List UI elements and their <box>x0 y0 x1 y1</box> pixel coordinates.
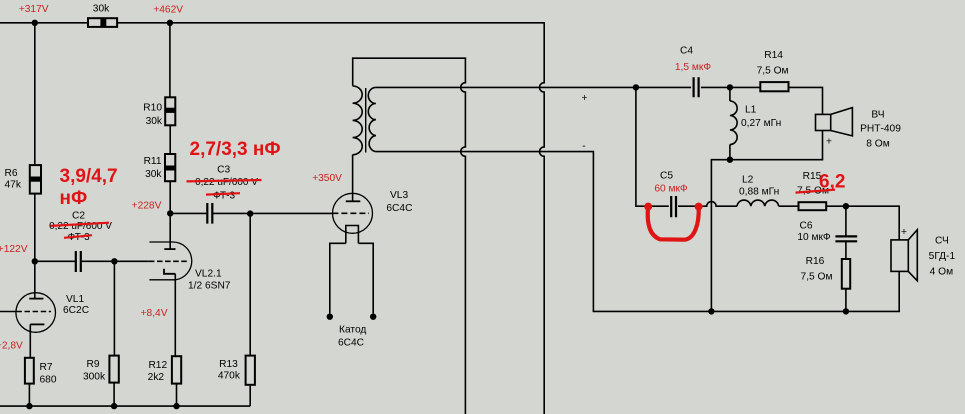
svg-text:нФ: нФ <box>60 188 88 209</box>
junction R15/C6 node <box>843 203 849 209</box>
wire R15 to C6 node to midrange speaker <box>826 206 899 240</box>
svg-text:R13: R13 <box>219 359 238 370</box>
svg-text:30k: 30k <box>146 116 163 127</box>
junction +122V node <box>32 258 38 264</box>
svg-text:10 мкФ: 10 мкФ <box>797 232 831 243</box>
wire VL2.1 cathode lead down to R12 <box>174 274 176 356</box>
junction ground rail at R7 <box>26 403 32 409</box>
tube VL2.1 1/2 6SN7 (half envelope) <box>149 242 192 280</box>
svg-text:680: 680 <box>40 375 57 386</box>
wire R9 node down to R9 and R9 to bottom rail <box>113 261 115 406</box>
svg-text:+: + <box>826 137 832 148</box>
annotation red mark C5 right terminal <box>695 203 703 211</box>
svg-text:ВЧ: ВЧ <box>871 110 884 121</box>
inductor L1 <box>730 101 737 145</box>
svg-text:6,2: 6,2 <box>819 172 845 193</box>
resistor R16 7,5 Ом <box>801 256 851 289</box>
svg-text:+: + <box>582 93 588 104</box>
svg-text:1/2 6SN7: 1/2 6SN7 <box>188 281 231 292</box>
svg-text:C3: C3 <box>217 165 230 176</box>
svg-text:C4: C4 <box>680 46 693 57</box>
tube VL1 6C2C triode <box>16 293 56 333</box>
resistor R7 680 <box>25 358 57 386</box>
inductor L2 <box>737 200 779 206</box>
svg-text:VL2.1: VL2.1 <box>195 269 222 280</box>
svg-text:+122V: +122V <box>0 244 28 255</box>
svg-text:R10: R10 <box>143 103 162 114</box>
annotation red strike C2 type <box>64 235 92 238</box>
svg-text:R14: R14 <box>764 50 783 61</box>
junction L1 bottom node <box>727 157 733 163</box>
svg-text:R9: R9 <box>86 359 99 370</box>
svg-text:РНТ-409: РНТ-409 <box>860 124 901 135</box>
junction ground rail at R12 <box>173 403 179 409</box>
svg-text:+: + <box>901 227 907 238</box>
transformer T1 output <box>353 86 376 155</box>
svg-text:+462V: +462V <box>153 5 183 16</box>
resistor 30k (top plate load) <box>88 4 117 27</box>
wire +317V branch down to R6 <box>34 23 36 165</box>
wire R6 bottom to +122V node to VL1 anode <box>34 194 36 299</box>
wire R11 to +228V node <box>169 181 171 213</box>
wire C2 right plate to R9-top node to VL2.1 grid <box>81 260 149 262</box>
svg-text:C5: C5 <box>660 171 673 182</box>
wire C3 right plate to R13 node to VL3 grid <box>213 212 333 214</box>
wire C5 right plate to L2 with hop over tweeter return <box>678 202 737 207</box>
junction bottom rail tweeter return <box>708 308 714 314</box>
svg-text:+317V: +317V <box>19 4 49 15</box>
wire tweeter bottom to return line down to bottom rail <box>711 131 822 312</box>
svg-text:7,5 Ом: 7,5 Ом <box>757 65 789 76</box>
speaker ВЧ РНТ-409 tweeter <box>816 108 853 136</box>
svg-text:R7: R7 <box>40 362 53 373</box>
svg-text:47k: 47k <box>5 180 22 191</box>
svg-text:R16: R16 <box>806 256 825 267</box>
annotation red strike C3 type <box>206 193 240 194</box>
junction + rail at C5 branch <box>633 84 639 90</box>
resistor R14 7,5 Ом <box>757 50 789 91</box>
annotation red strike R15 value <box>796 190 836 193</box>
svg-text:3,9/4,7: 3,9/4,7 <box>60 166 118 187</box>
svg-text:5ГД-1: 5ГД-1 <box>929 251 956 262</box>
junction bottom rail R16 <box>843 308 849 314</box>
svg-text:R6: R6 <box>5 168 18 179</box>
resistor R9 300k <box>83 356 119 383</box>
svg-text:L2: L2 <box>742 175 754 186</box>
svg-text:470k: 470k <box>218 370 241 381</box>
VL3 cathode terminals <box>327 314 333 320</box>
svg-text:6С4С: 6С4С <box>386 203 412 214</box>
svg-text:30k: 30k <box>93 4 110 15</box>
wire R7 bottom lead <box>28 384 30 407</box>
wire transformer primary top to right vertical drop <box>353 58 466 414</box>
wire R13 bottom lead <box>249 385 251 406</box>
svg-text:+8,4V: +8,4V <box>141 308 168 319</box>
wire VL2.1 anode lead <box>169 213 171 249</box>
junction C3 to VL3 grid node <box>247 210 253 216</box>
wire R13 node down to R13 top <box>249 214 251 356</box>
wire secondary bottom (-) to bottom crossover rail <box>376 152 899 312</box>
junction +228V node <box>167 210 173 216</box>
svg-text:2,7/3,3 нФ: 2,7/3,3 нФ <box>190 139 281 160</box>
svg-text:30k: 30k <box>145 169 162 180</box>
annotation red arc under C5 <box>648 208 699 240</box>
capacitor C2 (0,22uF crossed, 3,9/4,7 нФ) <box>76 251 81 272</box>
svg-text:6С4С: 6С4С <box>338 338 364 349</box>
resistor R11 30k <box>144 154 176 181</box>
svg-text:C6: C6 <box>799 221 812 232</box>
wire VL1 cathode lead down to R7 <box>29 324 31 357</box>
svg-text:R12: R12 <box>148 360 167 371</box>
svg-text:60 мкФ: 60 мкФ <box>654 184 688 195</box>
svg-text:+2,8V: +2,8V <box>0 341 23 352</box>
resistor R13 470k <box>218 356 255 385</box>
svg-text:Катод: Катод <box>339 325 366 336</box>
svg-text:7,5 Ом: 7,5 Ом <box>801 272 833 283</box>
wire R12 bottom lead <box>176 384 178 407</box>
svg-text:СЧ: СЧ <box>935 236 949 247</box>
junction grid node at R9 <box>111 258 117 264</box>
svg-text:C2: C2 <box>72 210 85 221</box>
capacitor C5 60 мкФ <box>671 196 676 217</box>
svg-text:0,27 мГн: 0,27 мГн <box>741 118 781 129</box>
svg-text:6C2C: 6C2C <box>63 305 89 316</box>
resistor R6 47k <box>5 165 42 194</box>
capacitor C3 (0,22uF crossed, 2,7/3,3 нФ) <box>207 203 212 224</box>
wire L2 to R15 <box>779 205 799 207</box>
wire L1 top lead <box>729 87 731 101</box>
wire VL1 grid input from left edge <box>0 311 16 313</box>
wire +122V node to C2 left plate <box>35 260 75 262</box>
svg-text:1,5 мкФ: 1,5 мкФ <box>675 62 711 73</box>
svg-text:4 Ом: 4 Ом <box>930 267 953 278</box>
wire R10 to R11 <box>169 125 171 154</box>
wire bottom ground rail left <box>0 405 250 407</box>
svg-text:+228V: +228V <box>132 201 162 212</box>
svg-text:300k: 300k <box>83 372 106 383</box>
wire C6 branch: node to C6 to R16 to bottom rail <box>845 206 847 311</box>
svg-text:VL1: VL1 <box>66 294 84 305</box>
svg-text:2k2: 2k2 <box>148 372 165 383</box>
wire +228V node to C3 left plate <box>170 212 206 214</box>
svg-text:+350V: +350V <box>312 173 342 184</box>
resistor R10 30k <box>143 97 175 127</box>
svg-text:L1: L1 <box>745 105 757 116</box>
transformer primary winding <box>353 86 363 155</box>
wire C5 branch down from + rail <box>636 87 669 206</box>
svg-text:0,22 uF/600 V: 0,22 uF/600 V <box>195 177 258 188</box>
resistor R15 (7,5 Ом crossed out, 6,2) <box>797 171 829 210</box>
wire secondary top (+) to tweeter branch <box>376 87 823 114</box>
wire transformer primary bottom to +350V to VL3 anode <box>352 155 354 202</box>
svg-text:0,88 мГн: 0,88 мГн <box>739 187 779 198</box>
wire +462V branch down to R10 <box>169 23 171 98</box>
wire top rail +317V to +462V to right drop <box>0 23 544 414</box>
annotation red mark C5 left terminal <box>644 203 652 211</box>
tube VL3 6C4C power triode <box>330 193 373 313</box>
svg-text:8 Ом: 8 Ом <box>866 139 889 150</box>
svg-text:R11: R11 <box>144 156 162 167</box>
svg-text:VL3: VL3 <box>390 190 408 201</box>
speaker СЧ 5ГД-1 midrange <box>891 230 917 281</box>
annotation red strike C2 value <box>51 223 110 226</box>
svg-text:ФТ-3: ФТ-3 <box>213 190 235 201</box>
capacitor C6 10 мкФ <box>835 236 857 241</box>
resistor R12 2k2 <box>148 356 182 383</box>
capacitor C4 1,5 мкФ <box>694 77 699 97</box>
transformer core <box>365 88 367 153</box>
junction C4/L1 node <box>727 84 733 90</box>
junction ground rail at R9 <box>111 403 117 409</box>
junction +317V node <box>32 20 38 26</box>
junction +462V node <box>167 20 173 26</box>
wire L1 bottom lead to tweeter return node <box>729 145 731 160</box>
svg-text:-: - <box>582 141 585 152</box>
annotation red strike C3 value <box>187 180 262 181</box>
transformer secondary winding <box>368 87 376 151</box>
